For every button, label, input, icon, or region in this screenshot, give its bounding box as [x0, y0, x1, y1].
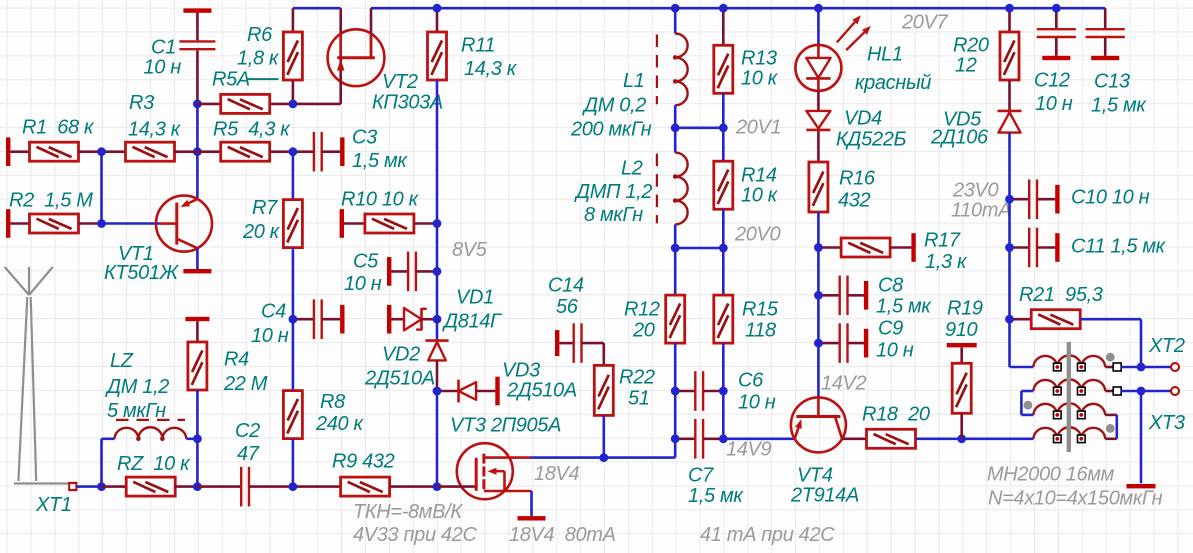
- resistor R1: [10, 150, 29, 153]
- wire colG C8 to C9: [817, 295, 820, 343]
- wire L2 to row 248: [674, 224, 677, 248]
- node junction C7 right: [719, 434, 728, 443]
- wire colD VD1 to VD2: [436, 319, 439, 340]
- resistor R15: [722, 248, 725, 295]
- svg-text:VD2: VD2: [382, 344, 420, 366]
- inductor L2 adjustment dashes: [656, 154, 658, 224]
- capacitor C1 terminal bar: [183, 8, 211, 12]
- svg-text:Д814Г: Д814Г: [442, 311, 503, 333]
- node junction top rail R11: [433, 4, 442, 13]
- capacitor C4 terminal bar: [340, 305, 344, 334]
- node junction C5: [433, 267, 442, 276]
- svg-text:КТ501Ж: КТ501Ж: [104, 262, 180, 284]
- svg-text:N=4x10=4x150мкГн: N=4x10=4x150мкГн: [988, 488, 1163, 510]
- svg-text:XT3: XT3: [1148, 412, 1185, 434]
- wire winding3 left jog: [1021, 414, 1033, 417]
- diode VD5: [998, 110, 1022, 113]
- resistor R5A: [197, 103, 220, 106]
- node junction C8: [814, 291, 823, 300]
- svg-text:R5 4,3 к: R5 4,3 к: [213, 119, 291, 141]
- node junction C2/R8/R9: [289, 482, 298, 491]
- svg-text:18V4 80mA: 18V4 80mA: [509, 524, 616, 546]
- svg-text:432: 432: [838, 190, 871, 212]
- svg-text:ДМ 1,2: ДМ 1,2: [105, 376, 169, 398]
- wire L1 to L2: [674, 105, 677, 152]
- resistor R3: [102, 150, 126, 153]
- svg-text:20V7: 20V7: [901, 12, 949, 34]
- svg-text:10 н: 10 н: [1035, 93, 1073, 115]
- capacitor C11 terminal bar: [1055, 233, 1059, 262]
- inductor L1: [674, 8, 677, 33]
- node junction top rail L1: [671, 4, 680, 13]
- resistor R16: [817, 131, 820, 162]
- capacitor C14 terminal bar: [555, 330, 559, 356]
- node junction R9/VT3 gate: [433, 482, 442, 491]
- resistor R4: [196, 321, 199, 342]
- node junction C6 right: [719, 387, 728, 396]
- wire colA R1 to R2: [100, 152, 103, 224]
- resistor R8: [292, 319, 295, 390]
- wire XT3 node to ground: [1140, 391, 1143, 483]
- inductor L2: [675, 153, 687, 225]
- svg-text:14V9: 14V9: [726, 439, 772, 461]
- svg-text:18V4: 18V4: [534, 463, 580, 485]
- diode VD1 zener: [391, 318, 404, 321]
- node junction R14/R15: [719, 244, 728, 253]
- svg-text:С3: С3: [352, 127, 377, 149]
- capacitor C7: [675, 437, 695, 440]
- node junction C7 left: [671, 434, 680, 443]
- capacitor C13: [1104, 8, 1107, 28]
- svg-text:10 к: 10 к: [741, 68, 779, 90]
- svg-text:R12: R12: [624, 299, 660, 321]
- node junction R3/R5: [193, 147, 202, 156]
- svg-text:200 мкГн: 200 мкГн: [570, 119, 652, 141]
- wire winding4 left to R18 node: [962, 437, 1034, 440]
- svg-text:VD3: VD3: [502, 360, 540, 382]
- wire VT3 source to ground: [530, 491, 533, 516]
- svg-text:R13: R13: [741, 48, 777, 70]
- capacitor C14: [559, 342, 573, 345]
- node junction C10: [1005, 195, 1014, 204]
- svg-text:R5A: R5A: [212, 69, 250, 91]
- wire winding2 to XT3: [1121, 390, 1141, 393]
- svg-text:LZ: LZ: [110, 350, 134, 372]
- capacitor C6: [675, 390, 695, 393]
- transformer T1 winding 2 terminal: [1113, 387, 1121, 395]
- connector XT1: [69, 483, 76, 490]
- capacitor C3: [293, 150, 314, 153]
- node junction R21: [1005, 315, 1014, 324]
- resistor R11: [436, 8, 439, 32]
- svg-text:R11: R11: [461, 35, 495, 57]
- node junction R2/VT1 base: [97, 219, 106, 228]
- wire colB R3 row to VT1 emitter: [196, 152, 199, 199]
- node junction C11: [1005, 243, 1014, 252]
- capacitor C1: [196, 13, 199, 41]
- diode VD3: [437, 390, 459, 393]
- capacitor C5 terminal bar: [387, 257, 391, 286]
- svg-text:R19: R19: [947, 298, 983, 320]
- svg-text:R9 432: R9 432: [332, 451, 395, 473]
- capacitor C9: [818, 342, 839, 345]
- diode VD2: [425, 339, 448, 342]
- resistor R13: [722, 8, 725, 45]
- resistor R17: [818, 246, 841, 249]
- resistor R19 terminal bar: [947, 343, 977, 347]
- svg-text:1,5 мк: 1,5 мк: [876, 296, 932, 318]
- svg-text:20V0: 20V0: [734, 224, 781, 246]
- svg-text:118: 118: [745, 320, 776, 342]
- inductor LZ adjustment dashes: [116, 419, 185, 421]
- svg-text:1,5 мк: 1,5 мк: [688, 485, 744, 507]
- wire top rail right segment: [371, 7, 1105, 10]
- svg-text:R22: R22: [619, 367, 655, 389]
- resistor R14: [722, 128, 725, 161]
- wire row L2/R14: [675, 247, 723, 250]
- node junction VD1: [433, 315, 442, 324]
- svg-text:L1: L1: [623, 70, 645, 92]
- svg-text:10 н: 10 н: [251, 325, 289, 347]
- svg-text:XT2: XT2: [1148, 335, 1185, 357]
- wire row L1/R13: [675, 127, 723, 130]
- node junction C1/R5A: [193, 100, 202, 109]
- resistor R21: [1010, 318, 1032, 321]
- capacitor C13 terminal bar: [1091, 56, 1119, 60]
- transformer T1 winding 3: [1033, 403, 1105, 415]
- connector XT3: [1171, 387, 1179, 395]
- node junction R13/R14: [719, 123, 728, 132]
- transistor VT2: [328, 29, 385, 86]
- svg-text:ДМП 1,2: ДМП 1,2: [574, 181, 652, 203]
- svg-text:МН2000 16мм: МН2000 16мм: [987, 464, 1115, 486]
- capacitor C9 terminal bar: [864, 329, 868, 358]
- wire LZ left leg: [100, 439, 103, 487]
- svg-text:HL1: HL1: [867, 44, 903, 66]
- node junction L1/L2: [671, 123, 680, 132]
- resistor R19: [960, 348, 963, 364]
- resistor R5: [197, 150, 220, 153]
- svg-text:С4: С4: [261, 301, 286, 323]
- node junction R7/R8/C4: [289, 315, 298, 324]
- transformer T1 phase dot 3: [1106, 424, 1115, 433]
- svg-text:R7: R7: [252, 197, 278, 219]
- svg-text:1,3 к: 1,3 к: [925, 251, 968, 273]
- svg-text:10 н: 10 н: [876, 340, 914, 362]
- svg-text:RZ 10 к: RZ 10 к: [117, 453, 191, 475]
- svg-text:С6: С6: [738, 370, 764, 392]
- resistor R18: [842, 437, 867, 440]
- led HL1: [817, 8, 820, 45]
- inductor L1 adjustment dashes: [656, 35, 658, 105]
- svg-text:С11 1,5 мк: С11 1,5 мк: [1071, 236, 1167, 258]
- svg-text:51: 51: [628, 388, 650, 410]
- node junction RZ/C2: [193, 482, 202, 491]
- wire VT1 base: [102, 222, 161, 225]
- wire colD VD3 to VT3 gate: [436, 391, 439, 487]
- svg-text:10 н: 10 н: [344, 273, 382, 295]
- svg-text:VT4: VT4: [797, 465, 833, 487]
- resistor RZ: [102, 485, 127, 488]
- svg-text:ТКН=-8мВ/К: ТКН=-8мВ/К: [353, 501, 463, 523]
- wire colF C6 to C7: [722, 391, 725, 439]
- capacitor C4: [293, 318, 314, 321]
- svg-text:R20: R20: [953, 35, 989, 57]
- svg-text:8 мкГн: 8 мкГн: [584, 204, 643, 226]
- svg-text:R8: R8: [320, 391, 345, 413]
- svg-text:С12: С12: [1034, 70, 1070, 92]
- svg-text:С7: С7: [688, 465, 714, 487]
- node junction XT3: [1137, 387, 1146, 396]
- wire colG R17 to C8: [817, 248, 820, 296]
- transistor VT4: [791, 397, 846, 452]
- svg-text:14V2: 14V2: [821, 373, 867, 395]
- capacitor C10: [1010, 198, 1030, 201]
- svg-text:VD1: VD1: [456, 287, 494, 309]
- transformer T1 core: [1067, 342, 1071, 452]
- transformer T1 winding 2: [1033, 379, 1105, 391]
- transistor VT1: [156, 196, 212, 252]
- wire top rail left segment: [293, 7, 341, 10]
- wire VT2 gate to R5A node: [293, 103, 341, 106]
- resistor R4 terminal bar: [185, 317, 209, 321]
- resistor R2: [10, 222, 29, 225]
- transformer T1 phase dot 1: [1106, 353, 1115, 362]
- svg-text:14,3 к: 14,3 к: [464, 58, 518, 80]
- svg-text:XT1: XT1: [35, 494, 72, 516]
- node junction XT2: [1137, 363, 1146, 372]
- diode VD4: [817, 91, 820, 111]
- node junction top rail C12: [1052, 4, 1061, 13]
- svg-text:L2: L2: [621, 158, 643, 180]
- resistor R9: [293, 485, 341, 488]
- resistor R12: [674, 248, 677, 295]
- capacitor C8 terminal bar: [864, 281, 868, 310]
- svg-text:4V33 при 42С: 4V33 при 42С: [353, 524, 477, 546]
- svg-text:С1: С1: [151, 37, 176, 59]
- svg-text:КП303А: КП303А: [372, 92, 443, 114]
- wire winding4 right jog: [1105, 437, 1117, 440]
- svg-text:R2 1,5 М: R2 1,5 М: [9, 190, 93, 212]
- node junction R5/C3/R7: [289, 147, 298, 156]
- wire LZ right to node: [186, 437, 197, 440]
- wire XT1 to RZ node: [76, 485, 101, 488]
- transformer T1 phase dot 2: [1024, 401, 1033, 410]
- svg-text:R4: R4: [224, 349, 249, 371]
- svg-text:1,8 к: 1,8 к: [237, 48, 280, 70]
- node junction top rail R20: [1005, 4, 1014, 13]
- node junction XT1/RZ/LZ: [97, 482, 106, 491]
- svg-text:14,3 к: 14,3 к: [128, 119, 182, 141]
- capacitor C12 terminal bar: [1042, 56, 1070, 60]
- inductor LZ: [115, 427, 187, 439]
- svg-text:8V5: 8V5: [452, 239, 488, 261]
- svg-text:1,5 мк: 1,5 мк: [1091, 95, 1147, 117]
- svg-text:R3: R3: [129, 92, 154, 114]
- capacitor C2: [197, 485, 241, 488]
- led HL1 arrows: [837, 22, 855, 42]
- svg-text:R10 10 к: R10 10 к: [341, 189, 420, 211]
- svg-text:С9: С9: [878, 318, 903, 340]
- svg-text:10 н: 10 н: [738, 392, 776, 414]
- node junction R10/R11: [433, 219, 442, 228]
- svg-text:56: 56: [556, 296, 579, 318]
- svg-text:красный: красный: [855, 72, 931, 94]
- resistor R10 terminal bar: [340, 209, 344, 238]
- svg-text:R16: R16: [839, 168, 876, 190]
- svg-text:2Д106: 2Д106: [930, 127, 989, 149]
- wire C7 row to VT4 emitter: [723, 437, 794, 440]
- svg-text:110mA: 110mA: [951, 200, 1011, 222]
- wire bus up to C7 row: [674, 439, 677, 458]
- node junction C6 left: [671, 387, 680, 396]
- wire colD C5 to VD1: [436, 271, 439, 319]
- node junction R18/R19: [957, 434, 966, 443]
- transformer T1 winding 4: [1033, 427, 1105, 439]
- resistor R2 terminal bar: [6, 209, 10, 238]
- resistor R1 terminal bar: [6, 137, 10, 166]
- resistor R6: [292, 8, 295, 32]
- diode VD1 terminal bar: [387, 305, 391, 334]
- transformer T1 winding 1 terminal: [1113, 363, 1121, 371]
- svg-text:12: 12: [955, 55, 977, 77]
- node junction R5A/R6/VT2 gate: [289, 100, 298, 109]
- svg-text:2Д510А: 2Д510А: [506, 380, 577, 402]
- svg-text:10 к: 10 к: [741, 185, 779, 207]
- svg-text:41 mA при 42С: 41 mA при 42С: [700, 524, 835, 546]
- svg-text:5 мкГн: 5 мкГн: [107, 400, 166, 422]
- capacitor C5: [391, 270, 408, 273]
- ground bar VT3 source: [518, 516, 546, 520]
- wire colH R21 to T1 winding1: [1008, 319, 1011, 367]
- svg-text:1,5 мк: 1,5 мк: [352, 150, 408, 172]
- capacitor C3 terminal bar: [340, 137, 344, 166]
- capacitor C12: [1055, 8, 1058, 28]
- svg-text:2Д510А: 2Д510А: [364, 368, 435, 390]
- svg-text:22 М: 22 М: [223, 373, 268, 395]
- svg-text:R17: R17: [924, 230, 961, 252]
- transformer T1 winding 1: [1033, 355, 1105, 367]
- svg-text:VT3 2П905А: VT3 2П905А: [450, 415, 561, 437]
- wire C14 to R22: [602, 343, 605, 365]
- node junction top rail R13: [719, 4, 728, 13]
- node junction R22 bottom: [599, 453, 608, 462]
- resistor R17 terminal bar: [911, 233, 915, 262]
- wire LZ node down to RZ node: [196, 439, 199, 487]
- capacitor C10 terminal bar: [1055, 185, 1059, 214]
- transistor VT3: [457, 443, 513, 499]
- svg-text:47: 47: [237, 443, 260, 465]
- svg-text:КД522Б: КД522Б: [836, 129, 906, 151]
- node junction L2/R12: [671, 244, 680, 253]
- capacitor C11: [1010, 246, 1030, 249]
- svg-text:С8: С8: [878, 275, 903, 297]
- resistor R22: [594, 365, 613, 415]
- svg-text:С10 10 н: С10 10 н: [1071, 187, 1150, 209]
- wire C1 to R5A node: [196, 50, 199, 104]
- wire colG C9 to VT4 base: [817, 343, 820, 397]
- svg-text:R14: R14: [741, 165, 777, 187]
- diode VD3 terminal bar: [495, 377, 499, 406]
- capacitor C8: [818, 294, 839, 297]
- wire winding2 left jog: [1021, 390, 1033, 393]
- svg-text:VT2: VT2: [382, 71, 418, 93]
- wire colH C11 to R21: [1008, 248, 1011, 320]
- node junction R16/R17: [814, 243, 823, 252]
- ground bar XT3: [1127, 484, 1156, 488]
- svg-text:910: 910: [945, 319, 978, 341]
- antenna W1: [28, 267, 30, 295]
- svg-text:10 н: 10 н: [144, 57, 182, 79]
- wire node colB R5A row to R3 row: [196, 104, 199, 152]
- svg-text:С5: С5: [353, 251, 379, 273]
- svg-text:20 к: 20 к: [242, 221, 281, 243]
- svg-text:С2: С2: [235, 420, 260, 442]
- svg-text:R6: R6: [247, 24, 273, 46]
- svg-text:С14: С14: [548, 275, 584, 297]
- svg-text:С13: С13: [1094, 71, 1130, 93]
- svg-text:20: 20: [632, 320, 655, 342]
- resistor R10: [344, 222, 365, 225]
- resistor R7: [292, 152, 295, 200]
- node junction C9: [814, 339, 823, 348]
- svg-text:R21 95,3: R21 95,3: [1019, 284, 1103, 306]
- wire winding3 right jog: [1105, 414, 1117, 417]
- node junction LZ/R4/RZ: [193, 434, 202, 443]
- node junction R1/R3: [97, 147, 106, 156]
- node junction top rail HL1: [814, 4, 823, 13]
- wire colD R10 to C5: [436, 224, 439, 272]
- svg-text:23V0: 23V0: [952, 180, 999, 202]
- svg-text:240 к: 240 к: [315, 413, 365, 435]
- svg-text:20V1: 20V1: [735, 117, 781, 139]
- wire VT1 collector down: [196, 248, 199, 269]
- svg-text:R15: R15: [742, 299, 779, 321]
- svg-text:VD4: VD4: [844, 108, 882, 130]
- svg-text:R1 68 к: R1 68 к: [22, 117, 95, 139]
- wire R21 to XT2 node: [1140, 319, 1143, 367]
- wire VT3 drain bus: [530, 456, 675, 459]
- svg-text:R18 20: R18 20: [862, 404, 930, 426]
- wire winding1 to XT2: [1121, 366, 1141, 369]
- svg-text:2Т914А: 2Т914А: [790, 485, 859, 507]
- node junction VD2/VD3: [433, 387, 442, 396]
- wire colH C10 to C11: [1008, 199, 1011, 247]
- wire colE C6 to C7: [674, 391, 677, 439]
- connector XT2: [1171, 363, 1179, 371]
- svg-text:ДМ 0,2: ДМ 0,2: [582, 95, 646, 117]
- resistor R20: [1008, 8, 1011, 32]
- ground bar VT1 collector: [183, 269, 211, 273]
